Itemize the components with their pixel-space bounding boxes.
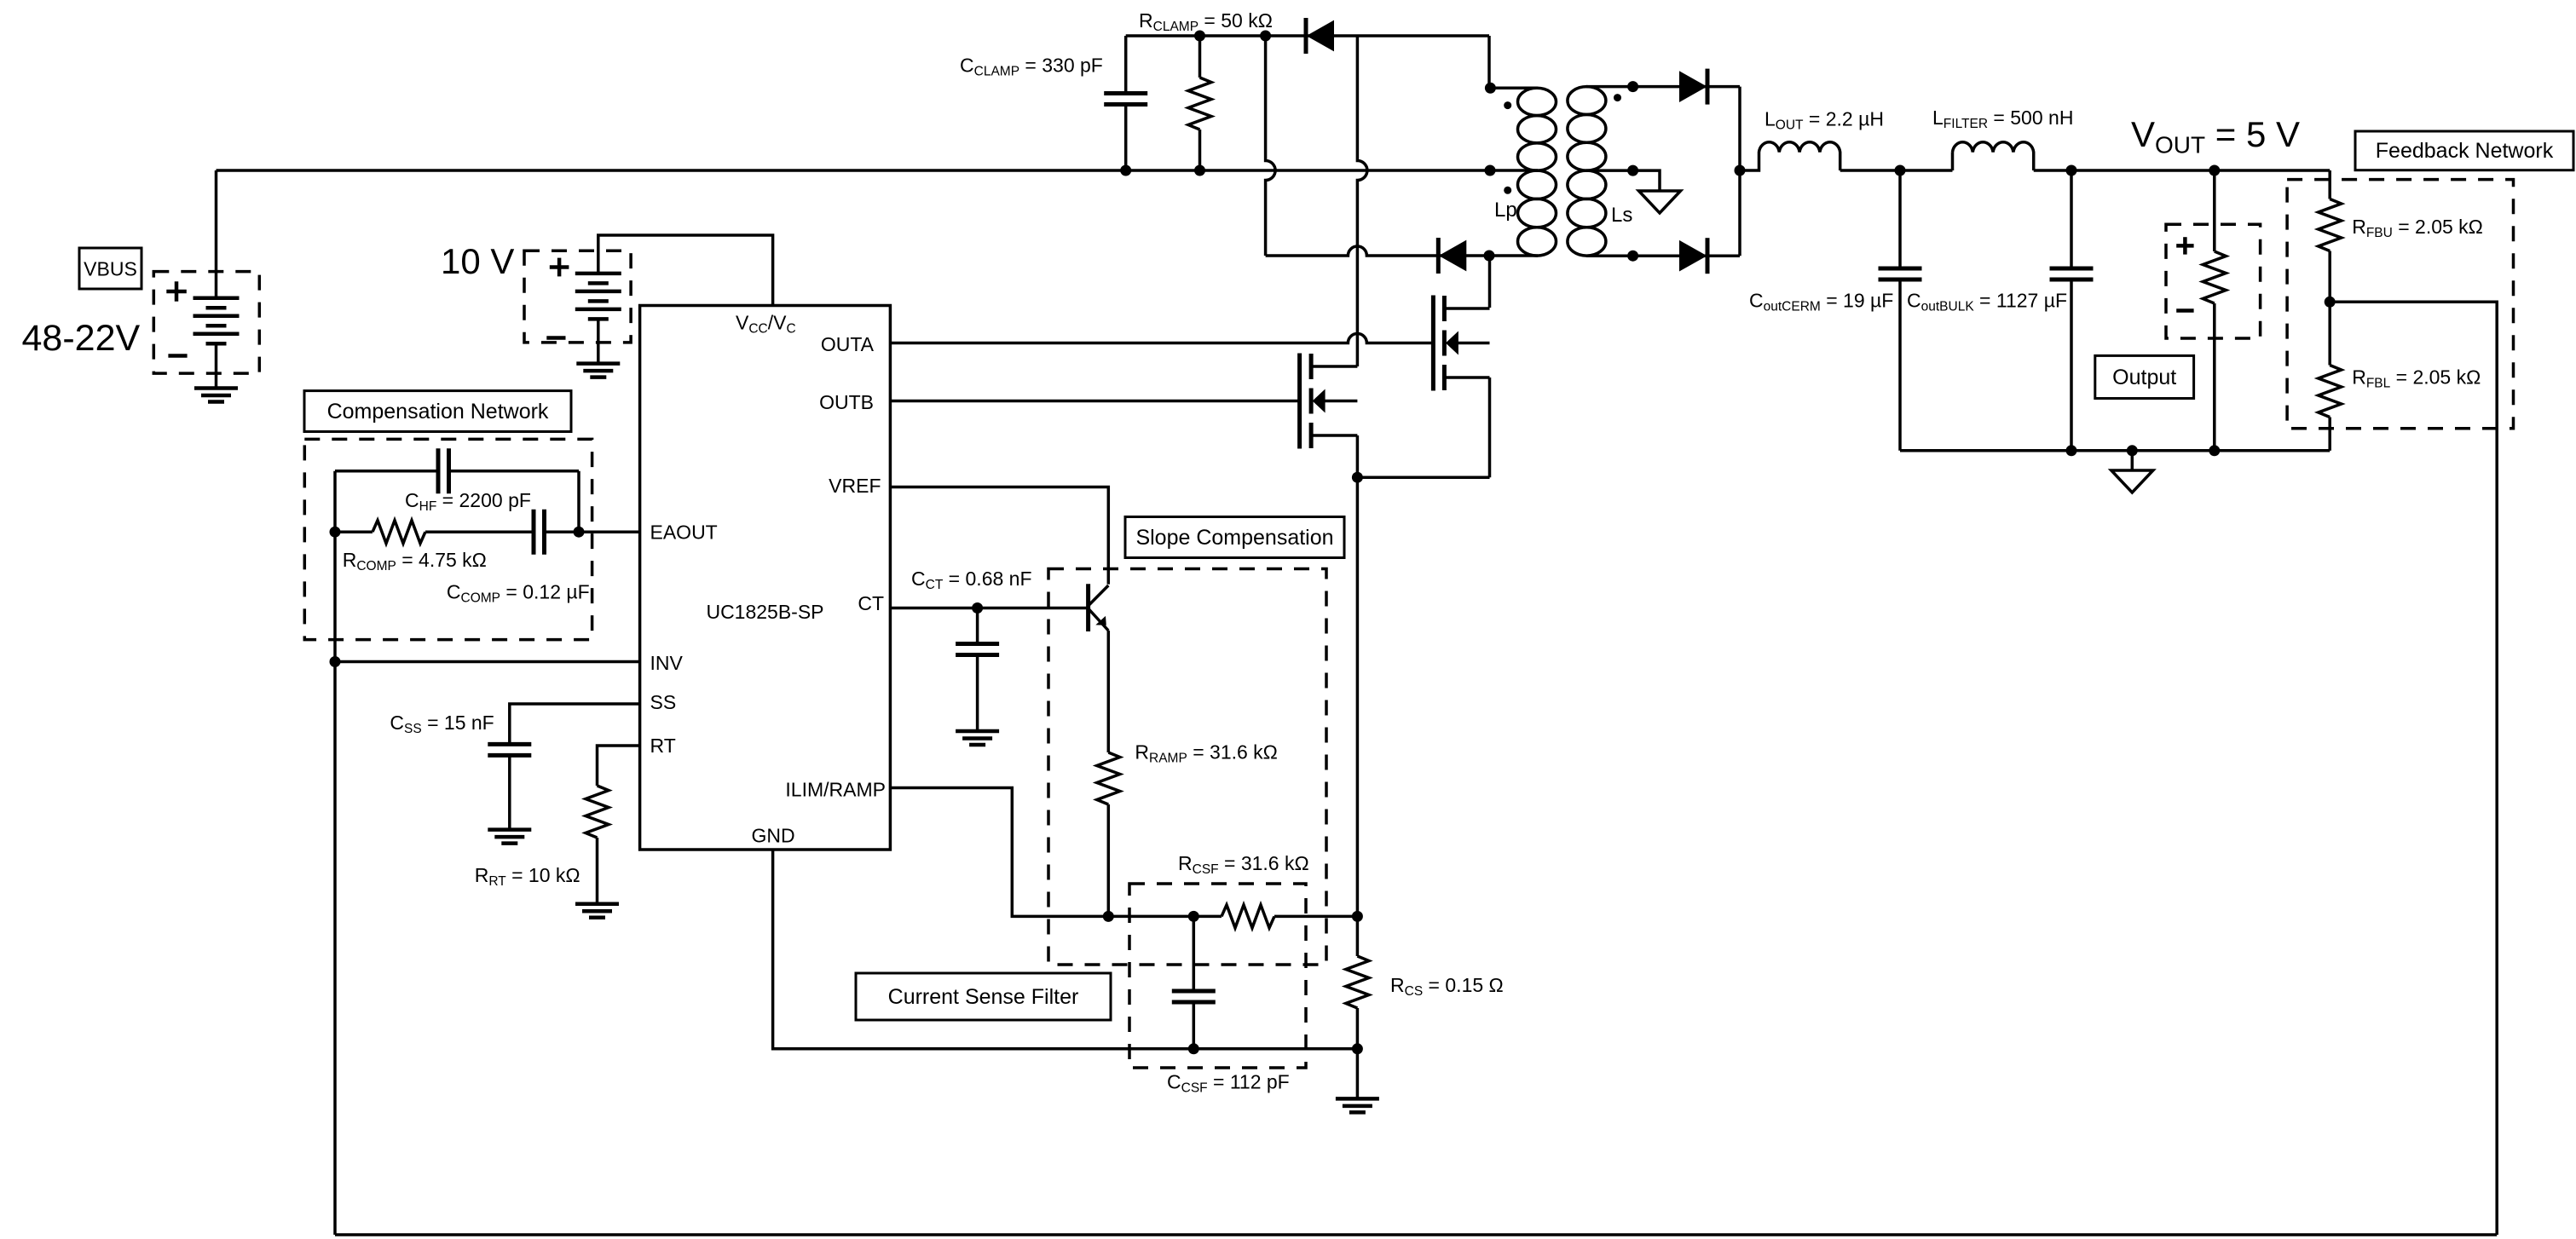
resistor RCLAMP lower lead [1198,130,1202,170]
capacitor CCT plates [956,642,999,646]
group box: slope compensation (dashed) [1048,569,1326,965]
ground: output (open triangle) [2111,470,2153,493]
wire: QA source drop [1488,377,1492,477]
resistor Rload zigzag [2203,251,2226,303]
polarity - of VBUS battery [168,354,187,358]
resistor RFBL zigzag [2319,366,2342,418]
capacitor CoutBULK upper lead [2070,170,2073,268]
capacitor CHF plates [436,448,441,493]
wire: RCS lower lead to ground [1356,1008,1360,1098]
node: ramp summing junctions [1103,911,1114,922]
wire: OUTA pin to QA gate with hop [890,334,1433,343]
wire: ILIM/RAMP pin routing down to summing line [890,788,1222,917]
ground: below RRT [575,902,619,907]
wire: CSS lower lead [508,755,511,829]
wire: secondary center tap to chassis ground [1633,170,1660,191]
resistor RCLAMP zigzag [1188,78,1211,130]
group box: 10V source (dashed) [524,251,631,343]
wire: CT pin to transistor base [890,607,1088,610]
svg-text:CT: CT [858,592,884,614]
wire: secondary top to rectifier [1633,85,1740,89]
resistor RCSF zigzag [1222,905,1274,928]
wire: feedback tap to right-edge drop [2330,302,2497,1235]
label box: VBUS [79,248,142,289]
wire: clamp top rail (y=42) [1126,34,1489,37]
group box: compensation network (dashed) [304,439,592,639]
wire: SS pin lead [510,704,640,744]
diode D3 rectifier top (pointing right) [1706,69,1710,105]
ground: below RCS [1336,1097,1379,1101]
resistor RFBU upper lead [2328,170,2331,199]
ground: below VBUS battery [194,386,238,390]
wire: RRT lower lead [596,838,599,904]
wire: RRAMP lower lead [1107,804,1111,916]
svg-text:SS: SS [650,691,677,713]
svg-text:OUTB: OUTB [819,391,874,413]
resistor RFBL upper lead [2328,302,2331,365]
node: common source junction [1352,472,1363,483]
resistor RFBU zigzag [2319,199,2342,251]
polarity + of 10V battery [550,265,569,269]
wire: RT pin lead [598,746,640,786]
wire: 10V battery negative lead to ground [597,319,600,363]
inductor Lp primary winding leads [1490,87,1538,90]
group box: current sense filter (dashed) [1129,884,1306,1068]
node: ground rail junctions [1188,1043,1199,1054]
capacitor CoutCERM lower lead [1898,279,1902,451]
svg-text:GND: GND [751,825,794,847]
polarity + of load [2176,244,2193,248]
capacitor CSS plates [488,742,531,746]
inductor Ls secondary winding leads [1586,85,1633,89]
svg-text:VBUS: VBUS [84,258,137,280]
inductor Ls secondary winding rings [1568,87,1606,115]
node: primary terminals [1485,83,1496,94]
svg-text:OUTA: OUTA [821,333,875,355]
svg-text:10 V: 10 V [441,241,514,281]
wire: main VBUS bus (y=200) [217,169,1491,172]
wire: VBUS battery negative lead to ground [215,343,218,388]
capacitor CoutCERM plates [1879,267,1922,271]
label box: Feedback Network [2355,131,2573,170]
wire: CCT upper lead [976,608,979,644]
node: CT junction [972,602,983,614]
svg-text:Slope Compensation: Slope Compensation [1135,526,1333,550]
node: output rail junctions [1895,165,1906,176]
wire: EAOUT pin lead [579,530,640,533]
transistor Q1 slope-comp PNP [1086,584,1090,631]
wire: output rail to feedback [2034,169,2331,172]
wire: switch-node vertical x=1592 from clamp rail to QB drain, hops main bus [1357,36,1367,366]
svg-text:Ls: Ls [1611,204,1632,227]
capacitor CCSF plates [1172,989,1216,994]
wire: output ground stub [2131,451,2134,470]
diode D4 rectifier bottom (pointing right) [1706,238,1710,274]
resistor RCOMP zigzag [373,521,425,544]
label box: Current Sense Filter [856,973,1111,1020]
wire: LOUT to LFILTER [1840,169,1953,172]
capacitor CCSF upper lead [1193,916,1196,991]
transistor QB (OUTB-driven N-MOSFET) [1297,354,1302,449]
group box: VBUS source (dashed) [153,272,259,374]
wire: compensation top branch with CHF gap [335,470,438,473]
svg-text:RT: RT [650,735,676,757]
battery V1 48-22V VBUS source [193,296,240,300]
ground: secondary center tap (open triangle) [1639,191,1681,213]
node: secondary phase dot [1614,94,1621,101]
svg-text:Lp: Lp [1494,199,1517,222]
wire: VREF pin to slope-comp transistor collector [890,487,1108,585]
resistor RRAMP zigzag [1097,752,1120,804]
svg-text:Current Sense Filter: Current Sense Filter [888,985,1079,1009]
wire: RCSF to current-sense node [1274,915,1357,919]
wire: secondary bottom to rectifier [1633,254,1740,257]
ground: below CCT [956,729,999,734]
wire: VBUS battery positive lead [215,170,218,298]
resistor RRT zigzag [586,786,609,838]
battery V2 10V bias supply [575,272,621,276]
wire: OUTB pin to QB gate [890,400,1299,403]
transistor QA (OUTA-driven N-MOSFET) [1431,296,1435,391]
svg-text:Feedback Network: Feedback Network [2376,139,2554,163]
capacitor CCOMP plates [532,510,536,555]
svg-text:ILIM/RAMP: ILIM/RAMP [785,779,886,801]
wire: output ground rail [1900,449,2330,452]
capacitor CCLAMP lower lead [1124,105,1128,171]
wire: current sense leg (x=1592) MOSFET sources to RCS [1356,435,1360,956]
node: output ground junctions [2066,445,2077,456]
svg-text:VREF: VREF [829,475,881,497]
op-amp/controller U1 UC1825B-SP box [640,306,891,850]
ground: below CSS [488,827,531,832]
inductor Lp primary winding rings [1518,88,1557,115]
node: clamp rail junctions [1194,31,1205,42]
inductor LFILTER [1953,142,2034,170]
resistor RFBU lower lead [2328,251,2331,303]
group box: feedback network (dashed) [2287,180,2513,429]
inductor LOUT [1740,142,1840,170]
wire: GND pin drop and ground rail [773,850,1358,1049]
svg-text:Compensation Network: Compensation Network [327,400,549,424]
diode D2 clamp (lower, pointing left) [1436,238,1441,274]
polarity - of load [2176,308,2193,313]
svg-text:48-22V: 48-22V [22,318,141,359]
capacitor CCSF lower lead [1193,1002,1196,1049]
wire: clamp top rail drop to top primary terminal [1487,36,1491,88]
capacitor CoutBULK plates [2050,267,2094,271]
resistor RCS zigzag [1346,956,1369,1008]
svg-text:Output: Output [2112,366,2176,389]
wire: load branch upper lead [2213,170,2216,251]
capacitor CoutCERM upper lead [1898,170,1902,268]
wire: QA drain riser [1488,256,1492,308]
node: compensation junctions [330,527,341,538]
label box: Output [2095,355,2194,398]
ground: below 10V battery [576,361,620,366]
wire: bottom feedback return rail [335,1233,2497,1236]
diode D1 clamp (upper, pointing left) [1304,18,1308,54]
wire: compensation mid branch left [335,530,373,533]
wire: compensation mid branch center [425,530,534,533]
wire: emitter to RRAMP [1107,631,1111,752]
wire: load branch lower lead [2213,303,2216,451]
svg-text:INV: INV [650,652,684,674]
wire: clamp vertical from top rail to lower diode line (x=1484.6), hops main bus [1266,36,1276,256]
node: primary phase dots [1504,101,1511,109]
node: secondary terminals [1627,81,1638,92]
resistor RFBL lower lead [2328,418,2331,451]
group box: load (dashed) [2166,224,2261,338]
wire: INV pin lead [335,660,640,664]
wire: lower clamp line (y=300) with hop [1266,246,1489,256]
node: rectifier junction [1735,165,1746,176]
polarity + of VBUS battery [166,290,187,294]
svg-text:EAOUT: EAOUT [650,522,718,544]
wire: 10V bias positive lead up and over to VCC/VC pin [598,235,773,304]
resistor RCLAMP upper lead [1198,36,1202,78]
wire: common source link [1357,475,1489,479]
label box: Compensation Network [304,391,571,432]
capacitor CCLAMP upper lead [1124,36,1128,94]
wire: compensation right vertical [577,471,580,533]
node: feedback divider midpoint [2325,297,2336,308]
wire: INV riser / feedback left vertical (x=393) [333,471,337,1235]
polarity - of 10V battery [546,336,565,340]
capacitor CoutBULK lower lead [2070,279,2073,451]
label box: Slope Compensation [1125,517,1344,558]
wire: rectifier output join [1738,87,1741,256]
wire: compensation mid branch right [545,530,580,533]
wire: CCT lower lead [976,655,979,732]
capacitor CCLAMP plates [1104,91,1147,95]
svg-text:UC1825B-SP: UC1825B-SP [706,601,823,623]
